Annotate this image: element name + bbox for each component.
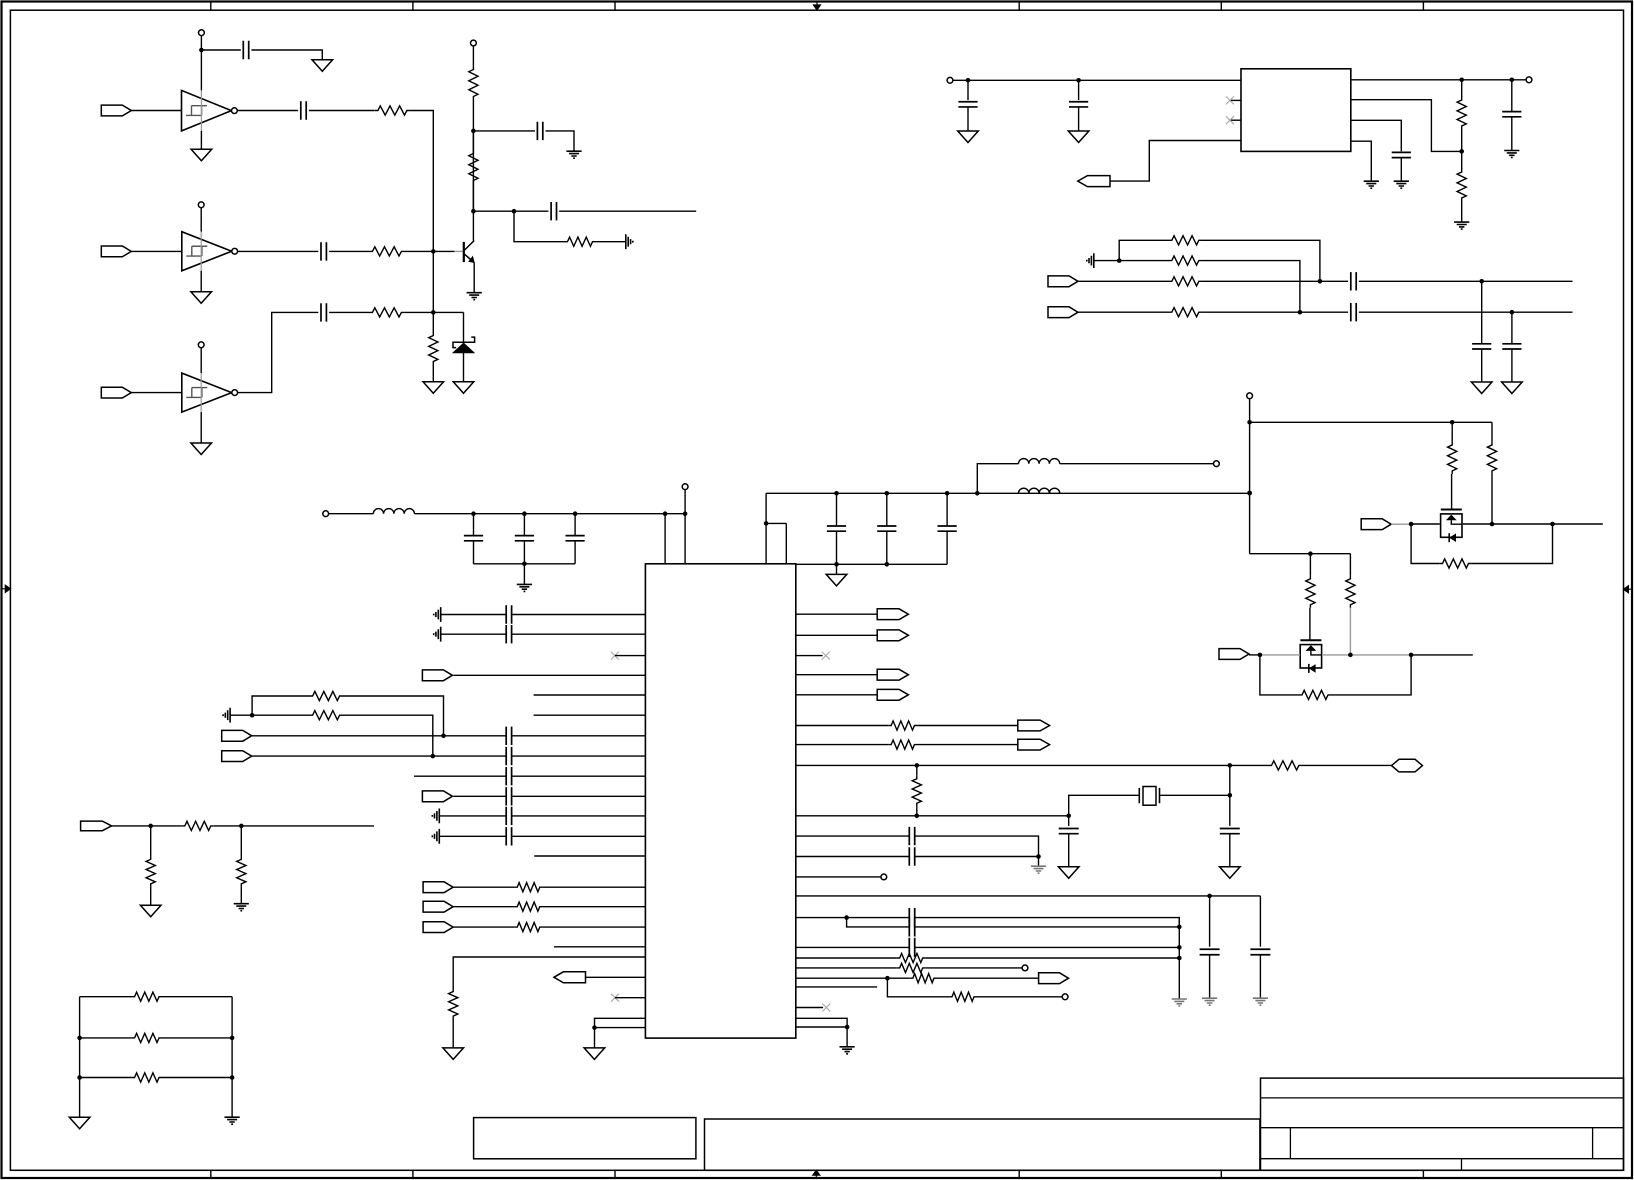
- no-connect stub U1 pin3: [1230, 119, 1241, 121]
- wire M1 right rail: [1463, 523, 1603, 525]
- wire R14 to gate M1: [1451, 474, 1453, 510]
- resistor R19: [1299, 690, 1331, 699]
- wire U2 right r9 b: [915, 836, 1039, 856]
- border right center arrow: [1624, 586, 1632, 593]
- ground GND D1: [453, 382, 474, 394]
- ground GND XC1: [1058, 867, 1079, 879]
- wire U2 left r16 b: [543, 926, 646, 928]
- capacitor C28: [506, 827, 511, 845]
- wire C19 top lead: [886, 493, 888, 526]
- junction M2 left: [1258, 653, 1263, 658]
- capacitor C32: [1250, 949, 1270, 955]
- power pin P1 of U3A: [199, 30, 205, 36]
- ground earth r9r10: [1031, 866, 1046, 873]
- wire node C to C6: [473, 210, 548, 212]
- wire U2 left r13 stub: [534, 855, 645, 857]
- connector STAT: [554, 972, 586, 983]
- wire U2 right r14 a: [796, 946, 910, 948]
- wire net row3 b: [162, 1077, 232, 1079]
- junction riser tap: [975, 491, 980, 496]
- connector A2: [422, 791, 452, 802]
- wire U2 left r8 a: [252, 755, 507, 757]
- connector CTRL2: [1219, 649, 1249, 660]
- resistor R17: [1306, 576, 1315, 608]
- resistor R38: [132, 1033, 163, 1042]
- ground GND U2 left pins: [584, 1048, 605, 1060]
- wire C8 bottom lead: [1078, 107, 1080, 131]
- wire C12 right: [1359, 311, 1573, 313]
- junction net right r2: [230, 1036, 235, 1041]
- junction M1 right a: [1490, 522, 1495, 527]
- wire U2 left r2 a: [441, 633, 507, 635]
- wire VDET to R34: [112, 825, 182, 827]
- wire to earth gnd left caps: [523, 564, 525, 585]
- capacitor C25: [506, 767, 511, 785]
- resistor R33: [949, 992, 977, 1001]
- ground GND C7: [958, 131, 979, 143]
- wire R1 to bus node A: [410, 111, 433, 252]
- wire U1 pin b to divider: [1351, 100, 1462, 152]
- wire U2 right r2: [796, 634, 877, 636]
- junction r-rail cap2: [885, 491, 890, 496]
- ground earth Q1: [467, 293, 482, 300]
- wire P1 to U3A power: [200, 36, 202, 91]
- wire gnd bus: [1178, 918, 1180, 999]
- capacitor C18: [827, 526, 846, 531]
- wire U2 right r5 a: [796, 725, 888, 727]
- wire C3 to R2: [329, 250, 369, 252]
- wire C31 lead b: [1209, 955, 1211, 998]
- capacitor C22: [506, 625, 511, 643]
- wire U2 right r16 a: [796, 967, 897, 969]
- wire bus mid: [1249, 422, 1251, 553]
- junction R35 tap: [148, 824, 153, 829]
- junction node C: [471, 209, 476, 214]
- junction node VOUT b: [1510, 78, 1515, 83]
- ground antenna U2 left r1: [434, 607, 441, 622]
- wire left caps bottom rail: [474, 563, 576, 565]
- crystal Y1: [1139, 787, 1159, 806]
- capacitor C11: [1351, 272, 1356, 290]
- wire R12 to C11: [1202, 280, 1348, 282]
- junction M2 right b: [1409, 653, 1414, 658]
- capacitor C6: [551, 202, 556, 220]
- border bottom center arrow: [813, 1170, 820, 1178]
- wire to gnd right pins: [846, 1027, 848, 1047]
- wire C14 to ground: [1511, 349, 1513, 382]
- title block outline: [1261, 1078, 1624, 1170]
- connector O6: [1018, 739, 1050, 750]
- resistor R7: [429, 333, 438, 365]
- ground antenna mid: [1087, 253, 1094, 268]
- wire node B to D1: [433, 311, 463, 313]
- wire node D to R11: [1119, 260, 1169, 262]
- ground GND C13: [1471, 382, 1492, 394]
- wire U2 right r17 b: [937, 977, 1039, 979]
- wire U2 left r14 a: [453, 886, 514, 888]
- wire antenna to node E: [230, 714, 252, 716]
- wire R18 lead: [1349, 554, 1351, 576]
- wire U2 right r13 b: [847, 917, 910, 919]
- wire net right rail: [231, 997, 233, 1117]
- junction r9 r10: [1036, 854, 1041, 859]
- junction gnd bus c: [1177, 956, 1182, 961]
- connector G2: [423, 901, 453, 912]
- ground antenna U2 left r12: [432, 829, 439, 844]
- schmitt buffer U3A: [182, 90, 232, 130]
- connector O3: [877, 669, 908, 680]
- wire U2 right r9 a: [796, 835, 910, 837]
- junction net right r3: [230, 1075, 235, 1080]
- junction C13 tap: [1479, 279, 1484, 284]
- resistor R1: [375, 106, 410, 115]
- junction gnd right pins: [845, 1025, 850, 1030]
- resistor R35: [146, 856, 155, 887]
- wire U2 top pin2: [684, 490, 686, 564]
- wire U2 right r15 b: [926, 957, 1180, 959]
- inductor L2: [1019, 459, 1060, 464]
- wire U2 right r10 b: [915, 856, 1039, 858]
- ground earth R9: [1454, 222, 1469, 229]
- junction r17 branch: [885, 976, 890, 981]
- junction r-rail cap3: [945, 491, 950, 496]
- resistor R37: [132, 992, 163, 1001]
- ground antenna U2 left r11: [432, 809, 439, 824]
- resistor R29: [1269, 761, 1302, 770]
- wire U2 top right riser: [765, 493, 767, 564]
- wire U3C to ground: [200, 412, 202, 443]
- wire C4 to R3: [329, 311, 369, 313]
- resistor R12: [1169, 277, 1202, 286]
- connector DM: [1048, 307, 1078, 318]
- wire R21 to row8: [342, 715, 432, 756]
- wire R2 to node A: [404, 250, 433, 252]
- wire R35 lead b: [150, 887, 152, 905]
- wire C16 top lead: [523, 514, 525, 536]
- junction C14 tap: [1510, 310, 1515, 315]
- wire C13 lead: [1481, 281, 1483, 344]
- wire C18 bottom lead: [836, 531, 838, 564]
- junction node VCC1: [199, 48, 204, 53]
- wire U2 right r5 b: [917, 725, 1017, 727]
- wire VCC1 to C1: [201, 49, 240, 51]
- capacitor C26: [506, 787, 511, 805]
- wire U2 right r6 b: [917, 744, 1017, 746]
- junction line4 node: [1298, 310, 1303, 315]
- connector CTRL1: [1361, 519, 1391, 530]
- wire right cap rail: [766, 492, 1250, 494]
- connector A1: [422, 670, 452, 681]
- wire U1 out rail: [1351, 79, 1526, 81]
- junction left caps gnd: [522, 562, 527, 567]
- wire R19 to M2 right: [1331, 655, 1411, 695]
- power pin P2 of U3B: [198, 202, 204, 208]
- junction rail stub2: [683, 511, 688, 516]
- resistor R36: [237, 856, 246, 887]
- wire U2 top pin4: [785, 523, 787, 563]
- connector VDET: [81, 821, 112, 831]
- wire U2 left r22: [595, 1027, 646, 1029]
- wire CTRL1 to M1 grey: [1391, 523, 1411, 525]
- wire C9 to ground: [1400, 158, 1402, 182]
- regulator U1: [1241, 69, 1351, 152]
- junction stub pair: [764, 521, 769, 526]
- wire to gnd right caps: [836, 564, 838, 574]
- wire U2 left r19: [586, 976, 646, 978]
- wire U2 right r13 a: [796, 917, 847, 919]
- wire U2 right r4: [796, 694, 877, 696]
- wire C31 lead a: [1209, 896, 1211, 947]
- connector IN2: [101, 246, 131, 257]
- wire U2 right r15 a: [796, 957, 897, 959]
- wire right caps bottom rail: [796, 563, 947, 565]
- wire U2 right r6 a: [796, 744, 888, 746]
- no-connect X U2 left r20: [611, 994, 619, 1002]
- ground GND R7: [423, 382, 444, 394]
- ground GND U3A: [191, 149, 212, 161]
- junction net left r2: [77, 1036, 82, 1041]
- wire to earth gnd r9r10: [1038, 857, 1040, 867]
- junction node C tap: [512, 209, 517, 214]
- wire R28 lead a: [916, 765, 918, 775]
- wire C18 top lead: [836, 493, 838, 526]
- ground earth C32: [1253, 998, 1268, 1005]
- no-connect stub U2 right r19: [796, 1007, 823, 1009]
- transistor Q1: [464, 241, 474, 263]
- wire U2 left r15 a: [453, 906, 514, 908]
- capacitor C19: [877, 526, 896, 531]
- wire net row2 b: [162, 1037, 232, 1039]
- wire R18 to M2 right grey: [1349, 608, 1351, 655]
- junction row7: [441, 734, 446, 739]
- wire r13 step b: [915, 926, 1180, 928]
- wire C32 lead a: [1259, 896, 1261, 947]
- no-connect X U1 pin2: [1226, 96, 1234, 104]
- wire R35 lead a: [150, 826, 152, 857]
- wire C32 lead b: [1259, 955, 1261, 998]
- junction row8: [431, 754, 436, 759]
- wire net row1 b: [162, 996, 232, 998]
- wire U3B output to C3: [238, 250, 319, 252]
- power pin P7: [1247, 393, 1253, 399]
- junction L-rail cap3: [573, 511, 578, 516]
- wire DP to R12: [1078, 280, 1169, 282]
- wire XC1 lead a: [1068, 816, 1070, 826]
- resistor R22: [514, 883, 543, 892]
- wire U2 left r8 b: [512, 755, 646, 757]
- wire R13 to C12: [1202, 311, 1348, 313]
- wire R16 to M1 right: [1472, 524, 1553, 564]
- ground earth C31: [1202, 998, 1217, 1005]
- title block rows: [1261, 1098, 1624, 1159]
- connector O4: [877, 689, 908, 700]
- junction right caps gnd b: [885, 562, 890, 567]
- capacitor C35: [909, 938, 914, 957]
- wire FB to R9: [1461, 151, 1463, 169]
- connector O5: [1018, 720, 1050, 731]
- wire U2 left r15 b: [543, 906, 646, 908]
- wire riser to L2: [977, 464, 1018, 494]
- wire node B to zener: [463, 312, 465, 342]
- capacitor C20: [938, 526, 957, 531]
- capacitor XC1: [1059, 829, 1079, 834]
- wire C17 top lead: [574, 514, 576, 536]
- wire node A to Q1 base: [433, 250, 454, 252]
- wire L2 to pin: [1060, 463, 1214, 465]
- wire tap to C5: [473, 130, 535, 132]
- junction XTAL top: [1228, 763, 1233, 768]
- capacitor C33: [909, 908, 914, 927]
- wire M1 bypass loop: [1411, 524, 1439, 564]
- wire U2 left r10 b: [512, 795, 646, 797]
- wire U2 right r14 b: [915, 946, 1180, 948]
- capacitor C3: [321, 242, 326, 260]
- junction C31 tap: [1207, 894, 1212, 899]
- wire U2 right r17 a: [796, 977, 910, 979]
- no-connect stub U2 right r3: [796, 655, 823, 657]
- wire U2 left r1 b: [512, 614, 646, 616]
- wire R15 to M1 right: [1491, 474, 1493, 524]
- capacitor C15: [464, 536, 483, 541]
- ground earth C5: [566, 151, 581, 158]
- ground GND U3B: [191, 292, 212, 304]
- junction rail stub1: [663, 511, 668, 516]
- wire P4 to R4: [472, 46, 474, 67]
- wire U2 left r11 b: [512, 815, 646, 817]
- wire R14 lead: [1451, 422, 1453, 442]
- wire L1 to rail: [415, 513, 686, 515]
- resistor R14: [1448, 442, 1457, 474]
- wire to gnd left pins: [594, 1028, 596, 1048]
- capacitor C7: [958, 102, 977, 107]
- junction R28 top: [915, 763, 920, 768]
- wire collector net: [472, 131, 474, 241]
- capacitor C12: [1351, 303, 1356, 321]
- wire M2 to jct grey: [1322, 654, 1411, 656]
- junction gnd left pins: [592, 1025, 597, 1030]
- wire U2 left r18 to R25: [453, 957, 645, 989]
- resistor R10: [1169, 236, 1202, 245]
- wire U3A power through: [200, 90, 202, 130]
- title block small box: [474, 1118, 696, 1159]
- power pin P9: [682, 484, 688, 490]
- wire M2 right rail: [1411, 654, 1473, 656]
- junction node E: [250, 713, 255, 718]
- junction R28 bottom: [915, 814, 920, 819]
- connector G1: [423, 882, 453, 893]
- wire C10 to ground: [1511, 117, 1513, 151]
- wire U3A output to C2: [237, 110, 298, 112]
- wire U2 right r18 stub: [796, 986, 877, 988]
- ground earth R36: [234, 904, 249, 911]
- wire R9 to ground: [1461, 201, 1463, 222]
- capacitor C17: [566, 536, 585, 541]
- wire net row1: [80, 996, 132, 998]
- resistor R26: [888, 721, 917, 730]
- wire M2 bypass loop: [1260, 655, 1299, 695]
- wire C5 to ground: [546, 131, 575, 151]
- resistor R9: [1457, 169, 1466, 201]
- connector O2: [877, 630, 908, 641]
- wire net row3: [80, 1077, 132, 1079]
- wire P8 to L1: [329, 513, 374, 515]
- resistor R31: [897, 963, 926, 972]
- connector O7: [1039, 973, 1069, 984]
- ground GND right caps: [826, 574, 847, 586]
- wire U2 left r6 stub: [534, 714, 646, 716]
- wire gate1 rail: [1250, 421, 1492, 423]
- wire D1 to ground: [463, 353, 465, 382]
- wire C6 right end: [559, 210, 696, 212]
- wire net row2: [80, 1037, 132, 1039]
- ground antenna R6: [626, 234, 633, 249]
- wire U2 right r3: [796, 674, 877, 676]
- resistor R39: [132, 1073, 163, 1082]
- wire R4 to R5: [472, 100, 474, 151]
- wire C14 lead: [1511, 312, 1513, 344]
- capacitor XC2: [1220, 829, 1240, 834]
- wire U2 right r11: [796, 876, 881, 878]
- junction bus gate1 tap: [1247, 420, 1252, 425]
- capacitor C1: [243, 41, 248, 59]
- ground GND C14: [1502, 382, 1523, 394]
- no-connect X U2 right r19: [822, 1004, 830, 1012]
- resistor R4: [469, 67, 478, 100]
- junction gnd bus b: [1177, 945, 1182, 950]
- zener diode D1: [453, 337, 475, 353]
- junction node VOUT a: [1459, 78, 1464, 83]
- junction M1 left: [1409, 522, 1414, 527]
- wire C1 to ground: [251, 50, 322, 60]
- wire XTAL bus: [1229, 765, 1231, 795]
- junction right caps gnd a: [834, 562, 839, 567]
- wire U2 right r16 b: [926, 967, 1022, 969]
- capacitor C14: [1502, 344, 1521, 349]
- capacitor C34: [909, 917, 914, 936]
- capacitor C16: [515, 536, 534, 541]
- junction C7 tap: [966, 78, 971, 83]
- junction net left r3: [77, 1075, 82, 1080]
- wire Q1 emitter to ground: [473, 263, 475, 293]
- wire U2 left r7 a: [252, 735, 507, 737]
- inductor L1: [373, 509, 414, 514]
- resistor R25: [449, 989, 458, 1020]
- junction node FB: [1459, 149, 1464, 154]
- wire CTRL2 to jct: [1249, 654, 1260, 656]
- wire R28 lead b: [916, 806, 918, 816]
- wire R17 to gate M2: [1309, 608, 1311, 640]
- wire antenna to node D: [1094, 260, 1119, 262]
- wire U1 enable to EN flag: [1110, 141, 1241, 182]
- wire U2 left r2 b: [512, 633, 646, 635]
- wire VOUT to C10: [1511, 80, 1513, 112]
- connector O1: [877, 609, 908, 620]
- border zone tick marks: [211, 2, 1424, 1178]
- power pin P4: [471, 40, 477, 46]
- wire XC2 lead a: [1229, 795, 1231, 826]
- junction M2 right a: [1348, 653, 1353, 658]
- title block big box: [705, 1119, 1260, 1170]
- junction line3 node: [1318, 279, 1323, 284]
- wire r13 step: [847, 918, 910, 927]
- wire P3 to U3C power: [200, 348, 202, 373]
- wire node B to R7: [432, 312, 434, 332]
- capacitor C21: [506, 605, 511, 623]
- ground earth net: [225, 1117, 240, 1124]
- wire XTAL right lead: [1160, 794, 1230, 796]
- wire U3B to ground: [200, 271, 202, 292]
- wire XTAL left lead: [1069, 795, 1140, 816]
